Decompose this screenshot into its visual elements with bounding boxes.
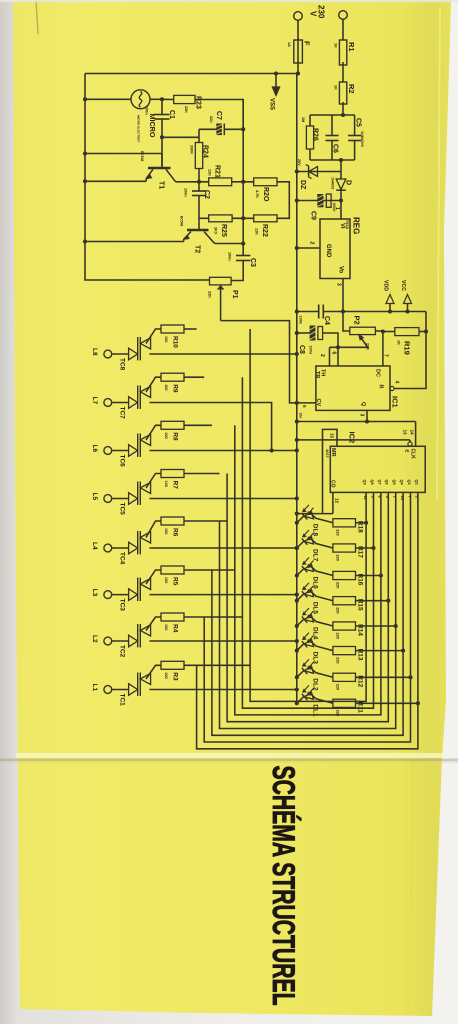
wire R21 to R20	[232, 181, 254, 183]
svg-text:22U: 22U	[209, 116, 213, 123]
wire 4017 output net Q5 pin 1 loop	[220, 492, 396, 728]
resistor R21 12K	[209, 178, 232, 186]
svg-text:R4: R4	[172, 624, 179, 633]
svg-text:TC2: TC2	[119, 645, 126, 658]
gate wire TC2	[146, 617, 161, 631]
svg-text:DL1: DL1	[312, 704, 319, 717]
resistor R12 220	[333, 673, 356, 681]
wire 4017 output net Q2 pin 3 loop	[197, 492, 418, 748]
triac TC8	[129, 348, 138, 360]
vertical rail x243	[242, 100, 244, 256]
svg-text:Q3: Q3	[407, 480, 411, 485]
node line after R2	[310, 114, 355, 116]
wire bottom of RC block	[310, 159, 355, 161]
svg-text:220: 220	[336, 684, 340, 690]
svg-text:MICRO: MICRO	[148, 114, 157, 138]
svg-text:15: 15	[330, 433, 335, 439]
svg-text:L6: L6	[91, 445, 98, 453]
svg-text:DL3: DL3	[312, 652, 319, 665]
wire TC7 row jog	[150, 403, 272, 451]
wire 4017 output net Q9 pin 11 loop	[250, 329, 366, 701]
triac TC5	[129, 493, 138, 505]
svg-text:12: 12	[335, 498, 340, 504]
svg-text:F: F	[303, 41, 312, 46]
fuse F	[294, 40, 303, 63]
capacitor C9 600u	[297, 200, 341, 202]
LED DL3	[295, 649, 299, 653]
resistor R3 100	[161, 661, 184, 669]
svg-text:MICRO ELECTRET: MICRO ELECTRET	[137, 115, 141, 143]
wire R11 to output drop	[356, 702, 418, 704]
resistor R1	[339, 40, 346, 65]
svg-text:R22: R22	[261, 224, 268, 237]
triac TC6	[129, 445, 138, 457]
svg-text:100: 100	[164, 624, 168, 630]
resistor R23 22K	[162, 98, 174, 100]
gate wire TC1	[146, 665, 161, 679]
svg-text:VSS: VSS	[269, 98, 275, 110]
wire TC5 row to rail	[150, 498, 297, 500]
svg-text:220: 220	[336, 555, 340, 561]
wire VCC rail right	[394, 312, 426, 389]
resistor R17 220	[333, 544, 356, 552]
svg-text:R5: R5	[172, 577, 179, 586]
svg-text:R23: R23	[195, 96, 202, 109]
wire Q line to CLK	[297, 421, 416, 423]
wire T1 collector line	[176, 181, 209, 183]
LED DL5	[295, 599, 299, 603]
svg-text:220: 220	[336, 633, 340, 639]
svg-text:L3: L3	[91, 589, 98, 597]
svg-text:C5: C5	[355, 118, 362, 127]
TR pin stub	[329, 347, 331, 366]
svg-text:Q8: Q8	[370, 480, 374, 485]
wire R15 to output drop	[356, 600, 389, 602]
IC2 MR pin 15 wire	[323, 429, 338, 513]
resistor R16 220	[333, 571, 356, 579]
wire TH TR node	[330, 346, 367, 348]
diode D 1N4002	[340, 160, 342, 179]
svg-text:R21: R21	[214, 165, 221, 178]
wire TC8 row to rail	[150, 353, 297, 355]
svg-text:3: 3	[336, 283, 342, 286]
svg-text:1UM400V: 1UM400V	[360, 131, 364, 148]
svg-text:Vo: Vo	[338, 266, 344, 274]
IC1 R pin bubble	[390, 386, 394, 390]
LED DL7	[295, 546, 299, 550]
svg-text:2: 2	[309, 242, 315, 245]
capacitor C8 100u	[297, 332, 310, 334]
resistor R7 100	[161, 470, 184, 478]
wire R16 to output drop	[356, 575, 381, 577]
svg-text:C9: C9	[310, 211, 317, 220]
capacitor C6	[331, 115, 333, 136]
wire rail branch to base line	[85, 153, 162, 155]
svg-text:P2: P2	[353, 316, 362, 325]
svg-text:IC1: IC1	[391, 396, 400, 408]
svg-text:7: 7	[383, 354, 389, 357]
potentiometer P1 22K	[210, 277, 232, 285]
svg-text:R24: R24	[202, 145, 209, 158]
IC1 pin 7 stub	[382, 332, 384, 367]
svg-text:L8: L8	[91, 348, 98, 356]
svg-text:Vi: Vi	[339, 223, 345, 229]
svg-text:220: 220	[336, 582, 340, 588]
svg-text:1K: 1K	[334, 85, 338, 90]
wire 4017 output net Q7 pin 6 loop	[235, 425, 381, 715]
gate line R4 to bundle	[184, 616, 242, 618]
svg-text:Q5: Q5	[392, 480, 396, 485]
svg-text:1A: 1A	[287, 42, 291, 47]
resistor R4 100	[161, 613, 184, 621]
svg-text:13: 13	[403, 430, 408, 436]
transistor T1 BC548	[148, 167, 171, 170]
svg-text:BC548: BC548	[180, 216, 184, 226]
svg-text:TC8: TC8	[119, 358, 126, 371]
svg-text:C7: C7	[215, 111, 222, 120]
resistor R13 220	[333, 647, 356, 655]
svg-text:12K: 12K	[255, 228, 259, 235]
svg-text:100: 100	[164, 481, 168, 487]
svg-text:L1: L1	[91, 684, 98, 692]
wire TC2 row to rail	[150, 640, 297, 642]
IC2 CO pin 12 wire	[332, 492, 334, 513]
svg-text:T1: T1	[158, 181, 165, 189]
svg-text:TC6: TC6	[119, 455, 126, 468]
svg-text:100: 100	[164, 672, 168, 678]
svg-text:22K: 22K	[184, 106, 188, 113]
svg-text:P1: P1	[231, 290, 238, 299]
svg-text:L5: L5	[91, 493, 98, 501]
svg-text:E: E	[405, 450, 410, 453]
resistor R22 12K	[254, 215, 277, 222]
wire R20 right to R22 right	[277, 182, 289, 219]
gate line R9 to bundle	[184, 376, 204, 378]
svg-text:C1: C1	[168, 110, 175, 119]
gate line R8 to bundle	[184, 424, 212, 426]
capacitor C3 100n	[236, 255, 250, 257]
svg-text:DZ: DZ	[299, 180, 306, 190]
svg-text:R3: R3	[172, 672, 179, 681]
svg-text:VCC: VCC	[400, 280, 406, 291]
svg-text:V: V	[309, 11, 318, 17]
svg-text:C2: C2	[203, 190, 210, 199]
svg-text:7815: 7815	[345, 220, 350, 230]
wire 4017 output net Q3 pin 7 loop	[204, 492, 410, 742]
gate wire TC5	[146, 474, 161, 489]
svg-text:TC1: TC1	[119, 694, 126, 707]
transistor T2 BC548	[187, 229, 209, 232]
svg-text:T2: T2	[194, 245, 201, 253]
resistor R24 330K	[195, 143, 202, 169]
resistor R19 1K	[383, 331, 395, 333]
svg-text:Q: Q	[360, 402, 366, 407]
svg-text:REG: REG	[352, 217, 361, 234]
electret microphone MICRO	[85, 98, 131, 100]
resistor R2	[339, 82, 346, 104]
terminal 230V neutral	[339, 11, 348, 20]
svg-text:100n: 100n	[184, 188, 188, 197]
svg-text:GND: GND	[325, 244, 331, 258]
wire pin13 enable line	[297, 439, 410, 441]
svg-text:R9: R9	[172, 384, 179, 393]
wire R18 to output drop	[356, 522, 367, 524]
svg-text:TC7: TC7	[119, 407, 126, 420]
svg-text:20V: 20V	[297, 159, 301, 166]
svg-text:L7: L7	[91, 397, 98, 405]
svg-text:2: 2	[319, 354, 325, 357]
gate line R10 to bundle	[184, 328, 197, 330]
svg-text:TR: TR	[314, 371, 320, 378]
svg-text:R8: R8	[172, 432, 179, 441]
VDD arrow	[389, 304, 391, 312]
gate wire TC8	[146, 329, 161, 344]
svg-text:TC5: TC5	[119, 503, 126, 516]
svg-text:100n: 100n	[299, 316, 303, 325]
triac TC2	[129, 635, 138, 647]
REG pin 2 wire	[297, 247, 320, 249]
resistor R5 100	[161, 566, 184, 574]
svg-text:L4: L4	[91, 542, 98, 550]
svg-text:1N4002: 1N4002	[331, 177, 335, 189]
svg-text:TC4: TC4	[119, 552, 126, 565]
wire T1 emitter to rail	[85, 180, 146, 182]
svg-text:Q7: Q7	[377, 480, 381, 485]
resistor R18 220	[333, 519, 356, 527]
capacitor C2 100n	[198, 182, 200, 191]
wire mic to C1 node	[150, 98, 162, 100]
resistor R14 220	[333, 622, 356, 630]
svg-text:220: 220	[336, 607, 340, 613]
svg-text:C4: C4	[323, 316, 330, 325]
wire P1 wiper to CV	[221, 321, 316, 403]
resistor R6 100	[161, 517, 184, 525]
REG pin 3 wire	[342, 279, 344, 312]
capacitor C7 22u	[198, 129, 200, 142]
svg-text:6: 6	[331, 352, 337, 355]
svg-text:Q4: Q4	[400, 480, 404, 486]
svg-text:R26: R26	[312, 128, 319, 141]
wire node to R24 top	[162, 136, 199, 138]
resistor R25 3K3	[199, 217, 209, 219]
resistor R11 220	[333, 699, 356, 707]
svg-text:100: 100	[164, 384, 168, 390]
svg-text:100: 100	[164, 528, 168, 534]
power line VDD VCC	[343, 311, 426, 313]
svg-text:100n: 100n	[228, 252, 232, 261]
svg-text:DC: DC	[375, 369, 381, 377]
wire R14 to output drop	[356, 625, 396, 627]
svg-text:14: 14	[410, 430, 415, 436]
svg-text:C6: C6	[332, 144, 339, 153]
svg-text:100: 100	[164, 432, 168, 438]
gate wire TC3	[146, 570, 161, 584]
wire R13 to output drop	[356, 650, 404, 652]
svg-text:Q6: Q6	[385, 480, 389, 485]
svg-text:R10: R10	[172, 336, 179, 348]
wire VSS rail vertical	[296, 74, 298, 704]
zener diode DZ 20V	[297, 171, 341, 173]
svg-text:SCHÉMA STRUCTUREL: SCHÉMA STRUCTUREL	[266, 766, 301, 1006]
gate line R7 to bundle	[184, 473, 220, 475]
wire TC4 row to rail	[150, 547, 297, 549]
LED DL6	[295, 573, 299, 577]
capacitor C5	[354, 115, 356, 136]
wire TC1 row to rail	[150, 689, 297, 691]
svg-text:220: 220	[336, 710, 340, 716]
triac TC7	[129, 397, 138, 409]
IC2 4017 box	[330, 446, 425, 492]
svg-text:D: D	[345, 180, 352, 185]
svg-text:L2: L2	[91, 635, 98, 643]
svg-text:10n: 10n	[299, 413, 303, 419]
svg-text:R2O: R2O	[262, 187, 269, 202]
svg-text:1M: 1M	[301, 117, 305, 122]
svg-text:R19: R19	[403, 341, 412, 355]
svg-text:12K: 12K	[208, 169, 212, 176]
svg-text:R2: R2	[347, 84, 356, 94]
potentiometer P2 22K	[343, 312, 350, 332]
svg-text:100n: 100n	[145, 106, 149, 115]
capacitor C1 100n	[161, 99, 163, 114]
resistor R8 100	[161, 421, 184, 429]
terminal 230V phase	[294, 12, 303, 21]
svg-text:330K: 330K	[190, 145, 194, 154]
gate wire TC6	[146, 425, 161, 440]
gate line R5 to bundle	[184, 569, 235, 571]
svg-text:3K3: 3K3	[214, 227, 218, 234]
resistor R26	[309, 115, 311, 126]
LED DL1	[295, 701, 299, 705]
resistor R9 100	[161, 373, 184, 381]
triac TC4	[129, 542, 138, 554]
svg-text:10: 10	[400, 496, 405, 501]
capacitor C4 100n	[297, 311, 319, 313]
node base junction	[160, 135, 164, 139]
svg-text:TC3: TC3	[119, 599, 126, 612]
wire CO to rail	[297, 513, 333, 515]
gate line R6 to bundle	[184, 520, 227, 522]
LED DL2	[295, 675, 299, 679]
svg-text:4.7K: 4.7K	[255, 190, 259, 198]
resistor R20 4.7K	[254, 178, 277, 186]
svg-text:220: 220	[336, 657, 340, 663]
wire top VSS line	[85, 73, 298, 75]
gate line R3 to bundle	[184, 664, 250, 666]
regulator REG 7815	[320, 219, 350, 279]
triac TC3	[129, 589, 138, 601]
svg-text:3: 3	[359, 414, 365, 417]
svg-text:R6: R6	[172, 528, 179, 537]
IC1 555 box	[316, 366, 390, 410]
svg-text:IC2: IC2	[348, 432, 357, 444]
gate wire TC7	[146, 377, 161, 392]
svg-text:1K: 1K	[334, 43, 338, 48]
wire R12 to output drop	[356, 676, 411, 678]
svg-text:R: R	[378, 385, 384, 389]
wire T2 collector to rail x243	[215, 243, 244, 245]
resistor R15 220	[333, 597, 356, 605]
wire 4017 output net Q4 pin 10 loop	[212, 492, 403, 735]
svg-text:CV: CV	[315, 399, 321, 407]
wire TC3 row to rail	[150, 594, 297, 596]
wire T2 emitter to rail	[85, 241, 184, 243]
svg-text:CO: CO	[330, 480, 336, 488]
svg-text:1K: 1K	[397, 340, 401, 345]
ground VSS arrow	[275, 74, 277, 88]
svg-text:1: 1	[334, 207, 340, 210]
svg-text:R25: R25	[220, 224, 227, 237]
svg-text:VDD: VDD	[383, 280, 389, 291]
svg-text:100: 100	[164, 577, 168, 583]
svg-text:R7: R7	[172, 481, 179, 490]
svg-text:BC548: BC548	[140, 151, 144, 161]
svg-text:Q9: Q9	[363, 480, 367, 485]
svg-text:100: 100	[164, 336, 168, 342]
VCC arrow	[407, 304, 409, 312]
REG pin 1 wire	[340, 201, 342, 220]
wire 4017 output net Q8 pin 9 loop	[242, 377, 373, 708]
wire left rail	[85, 74, 210, 281]
wire TC6 row to rail	[150, 450, 297, 452]
gate wire TC4	[146, 521, 161, 538]
wire 4017 output net Q6 pin 5 loop	[227, 474, 388, 722]
wire R17 to output drop	[356, 547, 374, 549]
svg-text:R1: R1	[347, 42, 356, 52]
resistor R10 100	[161, 325, 184, 333]
svg-text:22K: 22K	[208, 291, 212, 298]
svg-text:100U: 100U	[309, 346, 313, 355]
svg-text:4: 4	[394, 381, 400, 384]
triac TC1	[129, 684, 138, 696]
wire R25 to R22	[232, 217, 254, 219]
svg-text:Q2: Q2	[414, 480, 418, 485]
svg-text:C3: C3	[249, 258, 256, 267]
svg-text:4017: 4017	[325, 449, 330, 459]
IC1 Q output	[366, 410, 368, 421]
svg-text:DL4: DL4	[312, 627, 319, 640]
LED DL8	[295, 521, 299, 525]
LED DL4	[295, 624, 299, 628]
svg-text:C8: C8	[298, 345, 305, 354]
svg-text:220: 220	[336, 529, 340, 535]
svg-text:DL7: DL7	[312, 549, 319, 562]
